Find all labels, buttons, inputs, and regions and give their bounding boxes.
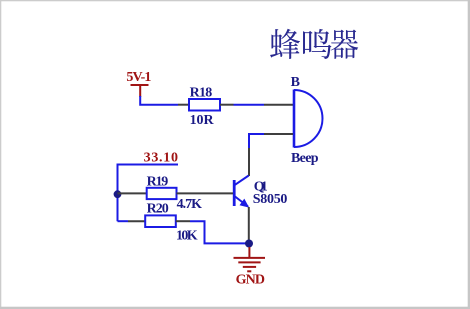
svg-text:5V-1: 5V-1 xyxy=(126,70,151,85)
collector lead dark xyxy=(248,148,250,176)
pin R18 left xyxy=(178,104,190,106)
resistor R18 xyxy=(189,99,220,111)
wire 33.10 xyxy=(118,165,179,222)
svg-text:33.10: 33.10 xyxy=(144,150,178,165)
wire R18 to buzzer xyxy=(234,104,265,106)
svg-text:S8050: S8050 xyxy=(253,192,288,207)
junction dot emitter xyxy=(245,240,253,248)
svg-text:B: B xyxy=(291,75,300,90)
transistor Q1 xyxy=(234,176,287,241)
wire rail to R20 xyxy=(118,220,129,222)
base lead wire xyxy=(177,192,234,194)
svg-text:4.7K: 4.7K xyxy=(177,197,203,212)
junction dot left xyxy=(114,190,122,198)
buzzer B xyxy=(291,75,323,166)
pin buzzer bottom xyxy=(264,133,293,135)
power 5V-1 xyxy=(126,70,151,97)
frame border xyxy=(0,0,470,1)
svg-text:GND: GND xyxy=(236,273,265,288)
svg-text:R20: R20 xyxy=(147,201,169,216)
wire collector corner xyxy=(249,134,264,148)
title 蜂鸣器 xyxy=(270,29,358,59)
svg-text:Beep: Beep xyxy=(291,151,319,166)
wire power to R18 xyxy=(140,96,178,105)
pin R20 right xyxy=(176,220,190,222)
pin R19 left xyxy=(118,192,147,194)
resistor R20 xyxy=(145,215,176,227)
pin R20 left xyxy=(128,220,145,222)
svg-text:10K: 10K xyxy=(176,229,198,244)
pin buzzer top xyxy=(264,104,293,106)
wire R20 to emitter junction xyxy=(190,221,246,243)
svg-text:R19: R19 xyxy=(147,175,169,190)
svg-text:10R: 10R xyxy=(190,113,215,128)
pin R18 right xyxy=(220,104,234,106)
resistor R19 xyxy=(147,188,177,199)
ground xyxy=(234,247,266,271)
svg-text:R18: R18 xyxy=(190,86,213,101)
